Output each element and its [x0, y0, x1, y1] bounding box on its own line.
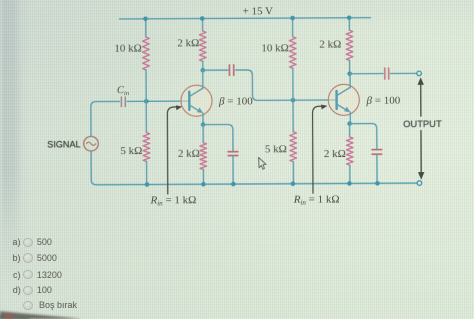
resistor R4 5k — [290, 132, 297, 162]
wire R2 bottom lead — [146, 162, 148, 185]
option c — [13, 270, 21, 280]
wire RE1 bottom lead — [202, 169, 204, 184]
resistor R1 10k — [143, 37, 150, 70]
wire RC1 top lead — [202, 19, 204, 31]
wire CE2 bottom lead — [376, 155, 378, 184]
wire source to Cin — [91, 101, 120, 136]
wire emitter2 to bypass cap CE2 — [350, 124, 377, 150]
wire Cin to Q1 base — [127, 100, 188, 102]
wire collector1 to interstage cap — [203, 69, 228, 71]
capacitor Cin plates — [121, 97, 125, 107]
arrow Rin2 pointer to Q2 — [313, 106, 323, 193]
capacitor CE1 plates — [228, 152, 238, 156]
node ground rail RE2 — [347, 181, 352, 186]
wire C2 to Q2 base — [236, 70, 336, 101]
transistor Q1 collector lead — [189, 70, 203, 96]
node ground rail R2 — [145, 182, 150, 187]
wire C3 to output terminal — [390, 72, 416, 74]
wire +15V top rail — [120, 18, 371, 19]
node top rail R1 — [143, 17, 148, 22]
wire RC2 bottom lead — [349, 60, 351, 73]
transistor Q2 emitter lead with arrow — [337, 104, 345, 109]
resistor RE2 2k — [346, 137, 353, 165]
transistor Q1 emitter lead with arrow — [189, 105, 197, 110]
transistor Q1 base bar — [188, 92, 190, 110]
resistor RE1 2k — [200, 143, 207, 170]
wire RE2 top lead — [349, 124, 351, 137]
source sine wave — [86, 142, 95, 145]
node top rail R3 — [290, 16, 295, 21]
transistor Q2 collector lead — [336, 74, 350, 96]
wire bottom ground rail — [91, 150, 417, 185]
wire R3 bottom lead — [292, 68, 294, 100]
node ground rail CE1 — [231, 182, 236, 187]
capacitor C3 output plates — [385, 68, 389, 79]
wire RE1 top lead — [202, 125, 204, 143]
node top rail RC2 — [347, 15, 352, 20]
source VS signal generator circle — [84, 136, 99, 151]
transistor Q2 body circle — [328, 84, 359, 115]
wire emitter1 to bypass cap CE1 — [203, 124, 233, 151]
option d — [13, 285, 21, 295]
wire RC2 top lead — [348, 18, 350, 30]
resistor RC2 2k — [346, 30, 353, 60]
terminal output top — [417, 71, 422, 76]
wire collector2 to output cap — [350, 73, 383, 75]
option bos birak — [23, 301, 32, 310]
arrow output voltage double-headed — [420, 81, 422, 175]
wire Q2 emitter down — [349, 112, 351, 123]
wire R4 top lead — [292, 100, 294, 132]
node base1 junction — [144, 99, 149, 104]
transistor Q2 base bar — [335, 91, 337, 109]
wire CE1 bottom lead — [232, 156, 234, 184]
node emitter2 junction — [347, 121, 352, 126]
wire R2 top lead — [145, 101, 147, 132]
wire R1 top lead — [145, 19, 147, 37]
node ground rail CE2 — [375, 181, 380, 186]
transistor Q1 body circle — [181, 85, 212, 116]
terminal output bottom — [417, 181, 422, 186]
node ground rail R4 — [291, 181, 296, 186]
option b — [13, 253, 21, 263]
wire R1 bottom lead — [145, 70, 147, 101]
node collector2 junction — [347, 71, 352, 76]
capacitor C2 interstage plates — [229, 65, 233, 75]
wire R3 top lead — [292, 18, 294, 37]
capacitor CE2 plates — [372, 150, 382, 155]
option a — [13, 237, 21, 247]
mouse cursor — [259, 157, 266, 169]
resistor R3 10k — [289, 37, 296, 69]
resistor RC1 2k — [199, 31, 206, 61]
wire R4 bottom lead — [292, 162, 294, 184]
node collector1 junction — [201, 68, 206, 73]
wire RE2 bottom lead — [349, 165, 351, 183]
arrow Rin1 pointer to Q1 — [167, 107, 177, 194]
node emitter1 junction — [201, 122, 206, 127]
node base2 junction — [291, 98, 296, 103]
node ground rail RE1 — [201, 182, 206, 187]
wire Q1 emitter down — [202, 113, 204, 124]
resistor R2 5k — [143, 132, 150, 161]
node top rail RC1 — [200, 16, 205, 21]
wire RC1 bottom lead — [202, 61, 204, 70]
